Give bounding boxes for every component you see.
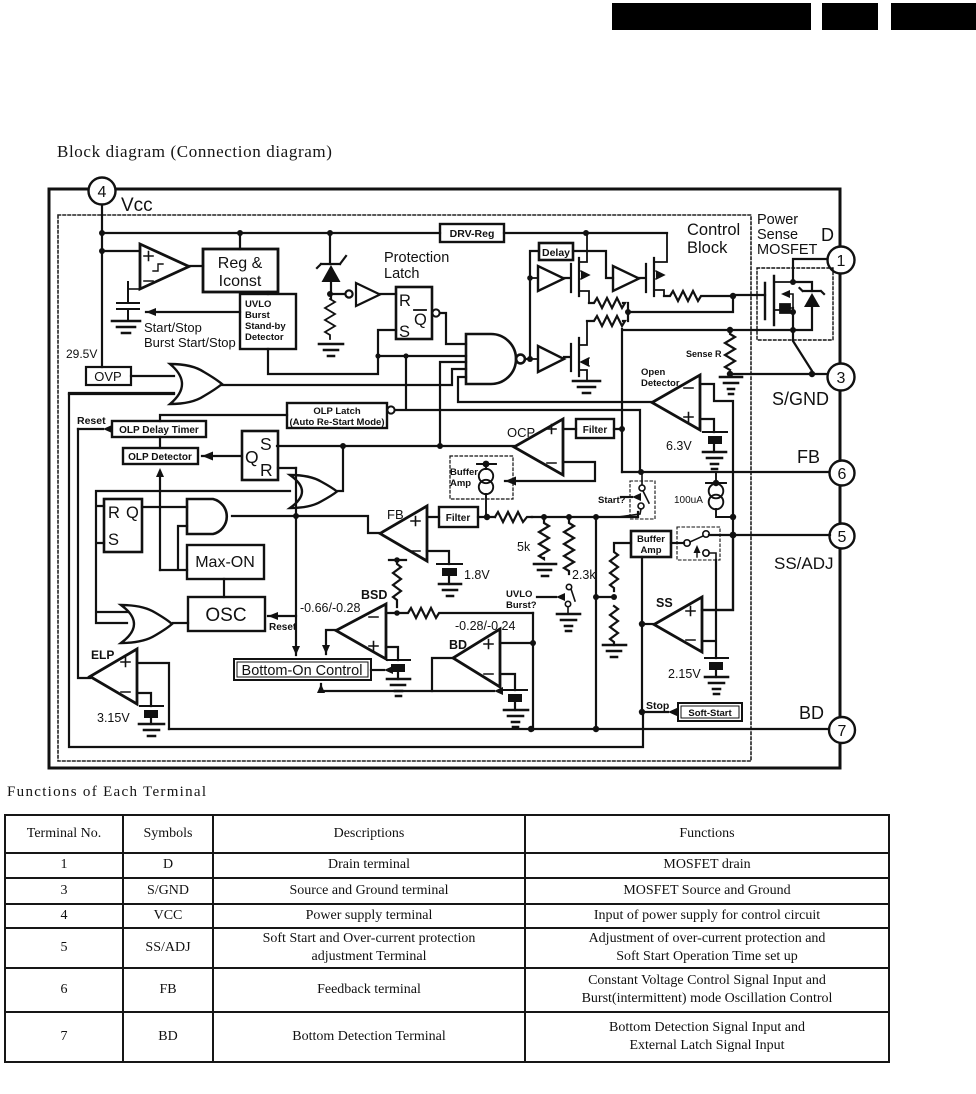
junction dot UVLO net bbox=[375, 353, 408, 358]
capacitor C3 1.8V bbox=[437, 564, 462, 584]
transistor M3 driver bbox=[564, 321, 589, 380]
junction dot driver input bbox=[527, 275, 533, 281]
node 100uA label bbox=[674, 495, 703, 506]
wire SS output to buffer amp bbox=[642, 623, 654, 625]
wire OLP latch output bbox=[395, 356, 640, 472]
ground below C3 bbox=[439, 584, 461, 596]
wire open detector plus input to 6.3V bbox=[700, 419, 714, 432]
op-amp U8 OCP comparator bbox=[514, 419, 563, 475]
wire gate node to power MOSFET bbox=[733, 294, 765, 296]
resistor R1 below zener bbox=[325, 299, 335, 339]
junction dots bottom bus bbox=[528, 726, 599, 732]
ground below R10 bbox=[603, 645, 626, 657]
OVP box bbox=[86, 367, 131, 385]
wire NAND output node bbox=[525, 358, 530, 360]
wire zener node to U2 and U2 to latch R bbox=[333, 293, 396, 295]
wire bottom bus bbox=[169, 728, 829, 730]
junction dot BD plus node bbox=[530, 640, 536, 646]
Bottom-On Control box bbox=[234, 659, 371, 680]
junction dot filter node bbox=[619, 426, 625, 432]
svg-text:SS: SS bbox=[656, 596, 673, 610]
junction dot central bbox=[593, 594, 617, 600]
capacitor C1 6.3V bbox=[703, 432, 727, 452]
wire BD output feedback to Bottom-On bbox=[317, 658, 503, 695]
OR gate G5 (bottom left) bbox=[121, 605, 172, 643]
switch SW3 arrow bbox=[694, 545, 701, 557]
node Reset label bbox=[77, 415, 106, 427]
junction dot AND out net bbox=[293, 513, 299, 519]
op-amp U7 open detector bbox=[652, 375, 700, 430]
junction dot stop bbox=[639, 709, 645, 715]
wire AND output to FB comparator bbox=[232, 516, 380, 533]
ground below R1 bbox=[319, 344, 343, 356]
switch SW2 Start? dashed box bbox=[630, 481, 655, 519]
svg-text:Amp: Amp bbox=[640, 545, 661, 556]
wire buffer amp output to SW3 bbox=[671, 542, 684, 544]
node D label bbox=[821, 225, 834, 245]
node FB label bbox=[797, 447, 820, 467]
current source I1 buffer amp bbox=[477, 464, 496, 517]
switch SW3 dashed box bbox=[677, 527, 720, 560]
Control Block label bbox=[687, 221, 740, 257]
op-amp U15 SS comparator bbox=[654, 597, 702, 652]
wire central node down to bottom bus bbox=[596, 517, 614, 730]
wire OCP net to NAND input bbox=[440, 362, 466, 446]
node -0.28/-0.24 label bbox=[455, 619, 516, 633]
resistor R8 2.3k bbox=[564, 517, 574, 574]
transistor M1 driver bbox=[564, 234, 589, 302]
node FB comparator label bbox=[387, 507, 404, 522]
node SS/ADJ label bbox=[774, 554, 834, 573]
resistor R6 after filter bbox=[495, 512, 532, 522]
node SS label bbox=[656, 596, 673, 610]
wire BD plus input bbox=[500, 642, 533, 644]
resistor R3 pair upper bbox=[589, 298, 625, 308]
latch U10 R Q S bbox=[104, 499, 142, 552]
buffer amp A1 dashed box bbox=[450, 456, 513, 499]
wire FB plus chain bbox=[427, 512, 638, 517]
Buffer Amp box (SS) bbox=[631, 531, 671, 557]
svg-text:Stop: Stop bbox=[646, 700, 669, 712]
diode D2 body diode bbox=[793, 282, 824, 330]
wire FB terminal bbox=[622, 471, 829, 473]
junction dot S/GND bbox=[727, 327, 815, 377]
Soft-Start box bbox=[678, 703, 742, 721]
inverter U4 bbox=[530, 266, 564, 291]
wire latch Q output to NAND input bbox=[440, 313, 466, 344]
resistor R5 sense bbox=[725, 330, 735, 370]
resistor R7 5k bbox=[539, 517, 549, 559]
OSC box bbox=[188, 597, 265, 631]
terminal 5 bbox=[830, 524, 855, 549]
wire UVLO to Q1 gate with arrow bbox=[146, 308, 240, 316]
wire opamp plus input bbox=[102, 250, 140, 252]
resistor R4 pair lower bbox=[587, 316, 625, 326]
wire OR1 output to NAND bbox=[222, 369, 466, 385]
wire Bottom-On output arrow to C4 bbox=[371, 666, 393, 674]
ground below Q1 bbox=[112, 321, 140, 333]
switch SW2 Start? bbox=[596, 472, 649, 517]
latch U3 R/S protection latch bbox=[396, 287, 440, 341]
wire U10 Q to AND bbox=[142, 506, 187, 508]
node Stop label bbox=[646, 700, 669, 712]
resistor R9 (buffer amp upper) bbox=[610, 543, 631, 591]
wire OLP detector bottom feed bbox=[156, 468, 187, 570]
wire G5 output to OSC bbox=[173, 622, 188, 624]
power MOSFET dotted box bbox=[757, 268, 833, 340]
IC dotted boundary bbox=[58, 215, 751, 761]
wire Max-ON to OSC bbox=[223, 579, 225, 597]
wire OLP latch input bbox=[160, 415, 287, 421]
node 5k label bbox=[517, 540, 531, 554]
wire OR4 output up to OCP net bbox=[337, 446, 343, 491]
capacitor C6 2.15V bbox=[705, 658, 728, 677]
transistor Q2 power MOSFET bbox=[765, 276, 793, 325]
wire U10 inputs from left bus bbox=[96, 491, 290, 623]
wire OVP to OR1 bbox=[131, 375, 174, 377]
wire Vcc vertical bus bbox=[101, 205, 103, 367]
resistor R2 (M2 source) bbox=[664, 291, 733, 301]
wire Q2 source to sense node bbox=[622, 308, 793, 472]
wire latch S input from UVLO net bbox=[268, 330, 466, 374]
terminal 1 bbox=[828, 247, 855, 274]
op-amp U12 FB comparator bbox=[380, 506, 427, 561]
inverter U2 with input bubble bbox=[345, 283, 380, 306]
OR gate G4 (mid) bbox=[290, 475, 337, 508]
node Start/Stop labels bbox=[144, 320, 236, 350]
node OCP label bbox=[507, 425, 535, 440]
wire ELP plus input bbox=[137, 663, 169, 729]
node Open Detector label bbox=[641, 367, 680, 389]
Filter box (FB) bbox=[439, 507, 478, 527]
capacitor C5 BD bbox=[504, 690, 527, 710]
svg-text:100uA: 100uA bbox=[674, 495, 703, 506]
OLP Latch box bbox=[287, 403, 395, 428]
junction dot gate node bbox=[730, 293, 736, 299]
terminal 4 bbox=[89, 178, 116, 205]
ground below R7 bbox=[534, 564, 556, 576]
wire OCP plus to filter to sense line bbox=[563, 428, 622, 430]
wire timer to detector bbox=[159, 437, 161, 448]
AND gate G3 bbox=[187, 499, 227, 534]
wire vertical AND-out to OSC reset and bottom-on bbox=[268, 468, 300, 655]
node 29.5V label bbox=[66, 347, 97, 361]
node 2.3k label bbox=[572, 568, 596, 582]
junction dot BSD minus bbox=[394, 557, 400, 616]
wire Q2 drain to terminal 1 bbox=[793, 259, 827, 282]
wire stop arrow to Soft-Start bbox=[642, 708, 678, 717]
ground below SW1 bbox=[557, 614, 580, 631]
transistor M2 driver bbox=[639, 233, 667, 296]
node 3.15V label bbox=[97, 711, 130, 725]
outer frame bbox=[49, 189, 840, 768]
node BD label bbox=[799, 703, 824, 723]
wire BSD net vertical bbox=[532, 613, 534, 730]
op-amp U14 BD comparator bbox=[453, 629, 500, 687]
node Protection Latch label bbox=[384, 250, 449, 282]
node -0.66/-0.28 label bbox=[300, 601, 361, 615]
node ELP label bbox=[91, 648, 114, 662]
Filter box (OCP) bbox=[576, 419, 614, 438]
op-amp U11 ELP comparator bbox=[90, 649, 137, 704]
ground below C5 bbox=[504, 710, 528, 727]
Delay box bbox=[539, 243, 573, 260]
wire arrow to SW2 bbox=[621, 493, 641, 501]
junction dot NAND out bbox=[527, 356, 533, 362]
wire ELP minus to 3.15V bbox=[137, 693, 151, 706]
Power Sense MOSFET label bbox=[757, 212, 818, 258]
wire BD minus to cap bbox=[500, 674, 515, 690]
terminal 3 bbox=[828, 364, 855, 391]
svg-text:Soft-Start: Soft-Start bbox=[688, 708, 732, 719]
switch SW3 buffer amp bbox=[684, 531, 716, 560]
ground below C6 bbox=[705, 677, 728, 694]
latch U9 Q S R bbox=[242, 431, 278, 480]
wire BSD plus to cap bbox=[386, 647, 398, 660]
resistor R11 BSD input bbox=[386, 608, 533, 618]
svg-text:Buffer: Buffer bbox=[637, 534, 665, 545]
wire SS plus input from SS/ADJ bbox=[702, 535, 733, 610]
junction dot buffer amp to FB filter node bbox=[483, 461, 491, 521]
wire FB minus to 1.8V bbox=[427, 551, 449, 564]
junction dot SS output bbox=[639, 621, 645, 627]
wire buffer amp input from SS bbox=[641, 557, 643, 712]
junction dots FB wire bbox=[638, 469, 719, 486]
ground below C2 bbox=[139, 724, 164, 736]
ground below C4 bbox=[387, 679, 410, 696]
junction dots FB chain bbox=[541, 514, 599, 520]
wire source to terminal 3 bbox=[730, 330, 827, 374]
inverter U6 bbox=[530, 346, 564, 372]
resistor R12 above BSD bbox=[389, 560, 406, 607]
DRV-Reg box bbox=[440, 224, 504, 242]
junction dot resistor join bbox=[625, 309, 631, 315]
ground below M3 bbox=[573, 381, 600, 393]
junction dot OCP out bbox=[340, 443, 443, 449]
wire arrow to SW1 bbox=[537, 593, 565, 601]
junction dot zener node bbox=[327, 291, 333, 297]
op-amp U1 start/stop comparator bbox=[140, 244, 189, 289]
wire left frame net bbox=[69, 393, 643, 747]
node Buffer Amp label bbox=[450, 467, 478, 489]
wire NAND out vertical to Delay bbox=[530, 251, 539, 359]
NAND gate G2 bbox=[466, 334, 525, 384]
terminal 7 bbox=[829, 717, 855, 743]
switch SW1 UVLO/Burst bbox=[565, 584, 575, 614]
diode D1 zener bbox=[317, 233, 346, 299]
wire open detector minus input bbox=[700, 384, 733, 610]
wire OCP minus to buffer amp bbox=[505, 462, 595, 486]
junction dots Q2 bbox=[790, 279, 796, 333]
capacitor C4 BSD bbox=[387, 660, 410, 679]
resistor Reg & Iconst box bbox=[203, 249, 278, 292]
node Sense R label bbox=[686, 349, 722, 359]
OR gate G1 (OVP) bbox=[170, 364, 222, 404]
ground below sense R bbox=[720, 377, 742, 394]
wire Delay to U5 bbox=[573, 251, 613, 278]
wire reset from ELP bbox=[78, 425, 112, 678]
UVLO Burst Stand-by Detector box bbox=[240, 294, 296, 349]
wire opamp output bbox=[189, 265, 203, 267]
svg-text:2.15V: 2.15V bbox=[668, 667, 701, 681]
node Vcc label bbox=[121, 195, 153, 216]
node 1.8V label bbox=[464, 568, 490, 582]
resistor R10 (buffer amp lower) bbox=[610, 606, 618, 645]
op-amp U13 BSD comparator bbox=[336, 604, 386, 659]
wire U9 Q output arrow to OLP detector bbox=[202, 452, 242, 461]
wire Vcc top bus bbox=[102, 232, 667, 234]
wire BSD output to Bottom-On Control bbox=[322, 630, 336, 654]
wire OR1 lower input bbox=[69, 393, 174, 395]
ground below C1 bbox=[703, 452, 726, 469]
node Start? label bbox=[598, 495, 626, 506]
junction dots SS/ADJ net bbox=[730, 514, 737, 539]
wire open detector output bbox=[458, 377, 652, 402]
wire terminal 5 bbox=[709, 534, 830, 536]
junction dots on Vcc bus bbox=[99, 230, 589, 254]
terminal 6 bbox=[830, 461, 855, 486]
OLP Detector box bbox=[123, 448, 198, 464]
wire OCP output to latch S bbox=[277, 445, 514, 447]
current source I2 100uA bbox=[706, 472, 733, 517]
Max-ON box bbox=[187, 545, 264, 579]
inverter U5 bbox=[613, 266, 639, 291]
capacitor C2 3.15V bbox=[140, 706, 163, 724]
node Reset label OSC bbox=[269, 622, 297, 633]
wire SS minus input bbox=[702, 560, 716, 658]
node BSD label bbox=[361, 588, 387, 602]
OLP Delay Timer box bbox=[112, 421, 206, 437]
wire Reg top to bus bbox=[240, 233, 268, 294]
node 2.15V label bbox=[668, 667, 701, 681]
wire U9 R input bbox=[278, 467, 296, 469]
node UVLO Burst? label bbox=[506, 589, 537, 611]
wire resistor pair join to gate node bbox=[628, 295, 733, 321]
transistor Q1 start/stop switch bbox=[117, 282, 140, 321]
node BD label bbox=[449, 638, 467, 652]
node S/GND label bbox=[772, 389, 829, 409]
node 6.3V label bbox=[666, 439, 692, 453]
